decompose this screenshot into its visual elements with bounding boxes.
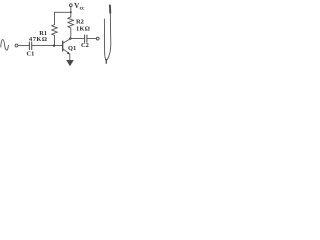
output terminal <box>96 37 99 40</box>
svg-text:C1: C1 <box>27 51 35 58</box>
Q1 emitter lead <box>63 49 69 54</box>
wire C2 to output <box>87 38 96 40</box>
Q1 collector lead <box>63 39 70 44</box>
node collector junction <box>69 37 71 39</box>
node top tee <box>70 11 72 13</box>
decorative tall object right: thick tip <box>109 5 111 13</box>
wire Vcc to R2 <box>70 7 72 17</box>
decorative tall object right line <box>107 13 111 60</box>
svg-text:1KΩ: 1KΩ <box>76 26 90 33</box>
input terminal <box>15 44 18 47</box>
svg-text:V: V <box>74 2 79 10</box>
resistor R2 <box>68 17 74 39</box>
wire collector to C2 <box>70 38 84 40</box>
svg-text:C2: C2 <box>81 42 89 49</box>
transistor Q1 base bar <box>62 41 64 51</box>
decorative tall object left line <box>104 19 105 60</box>
capacitor C1 <box>28 42 30 50</box>
wire C1 to base <box>32 45 62 47</box>
Vcc terminal <box>69 4 72 7</box>
wire input to C1 <box>18 45 29 47</box>
node base junction <box>53 44 55 46</box>
wire emitter to ground <box>69 54 71 60</box>
svg-text:Q1: Q1 <box>68 45 76 52</box>
svg-text:R2: R2 <box>76 19 84 26</box>
capacitor C2 <box>84 35 86 42</box>
source sine symbol <box>1 40 9 51</box>
Q1 emitter arrowhead <box>67 52 70 55</box>
wire top rail <box>55 11 71 13</box>
ground <box>66 60 74 66</box>
decorative tall object tip <box>105 60 107 64</box>
resistor R1 <box>52 12 57 45</box>
svg-text:47KΩ: 47KΩ <box>29 36 47 43</box>
svg-text:cc: cc <box>80 6 85 12</box>
